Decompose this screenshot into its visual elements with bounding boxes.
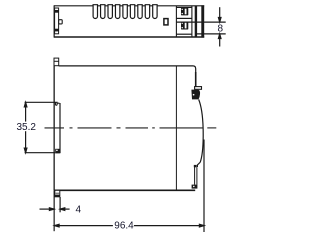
front mounting foot (bottom) — [55, 190, 60, 197]
side view top tab — [54, 58, 59, 66]
small rectangle window — [164, 19, 168, 25]
dimension 35.2: dimension line with arrows — [24, 102, 27, 152]
terminal pocket lines — [176, 7, 192, 18]
svg-text:8: 8 — [218, 24, 224, 35]
dimension 4: extension lines — [54, 190, 60, 231]
side view body outline — [54, 66, 196, 190]
svg-text:35.2: 35.2 — [16, 122, 36, 133]
rear latch step barb — [197, 162, 200, 167]
terminal cover dark bar — [195, 6, 197, 37]
rear latch foot — [192, 185, 198, 189]
dimension 35.2: extension lines — [25, 102, 58, 152]
dimension 35.2: label — [15, 122, 37, 132]
top view body outline — [54, 5, 204, 37]
DIN rail hook ledge (rear top) — [195, 87, 202, 90]
dimension 8: extension lines — [176, 22, 225, 34]
dimension 4: arrows — [40, 208, 70, 211]
rear bulge curve — [199, 100, 204, 163]
terminal screw 2 — [181, 22, 188, 30]
terminal block separator line — [175, 6, 177, 37]
front flange line — [59, 103, 61, 153]
rear latch double lines — [195, 167, 197, 185]
centerline (dash-dot) — [45, 127, 217, 129]
svg-text:4: 4 — [76, 205, 82, 216]
DIN rail hook block — [191, 90, 200, 100]
top view right end cap (thick) — [201, 5, 204, 37]
dimension 8: arrows — [218, 7, 221, 46]
terminal inner wall line — [191, 6, 193, 37]
terminal screw 1 — [181, 8, 188, 16]
vent slots (9 louvres) — [93, 5, 157, 19]
dimension 96.4: extension line (right) — [203, 140, 205, 233]
svg-text:96.4: 96.4 — [114, 221, 134, 232]
side view interior separator line — [175, 66, 177, 190]
front flange hook 2 (bottom) — [55, 149, 60, 154]
top view latch knob — [59, 20, 63, 24]
dimension 96.4: dimension line with arrows — [55, 224, 205, 227]
front flange hook 1 (top) — [55, 102, 59, 105]
top view DIN latch bar (left end) — [55, 8, 59, 34]
